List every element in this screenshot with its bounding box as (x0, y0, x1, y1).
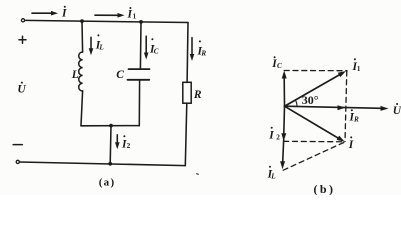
stray mark (197, 173, 199, 175)
vector IL phasor (280, 137, 285, 169)
dashed line IL to I (283, 142, 345, 170)
svg-text:C: C (116, 69, 124, 81)
wire R branch upper (186, 23, 189, 83)
svg-text:2: 2 (276, 133, 280, 141)
svg-text:I: I (348, 139, 354, 151)
svg-text:L: L (71, 69, 79, 81)
label I2 (121, 135, 131, 150)
svg-text:C: C (277, 62, 282, 70)
current arrow IC (144, 36, 149, 59)
svg-text:I: I (61, 8, 67, 20)
current arrow I2 (115, 135, 120, 150)
vector I1 phasor (285, 71, 347, 106)
svg-text:L: L (98, 44, 104, 52)
label IC (149, 38, 159, 55)
vector I2 phasor (281, 106, 286, 141)
label IR (197, 40, 207, 57)
wire C branch upper (139, 22, 142, 69)
wire L branch upper (81, 21, 84, 52)
wire top rail (25, 20, 188, 22)
current arrow IR (190, 38, 195, 61)
terminal top-left (21, 19, 24, 22)
label U phasor (393, 103, 401, 117)
junction node LC-mid (109, 124, 113, 128)
current arrow IL (89, 37, 94, 55)
angle arc 30 (295, 100, 297, 107)
dashed line I1 to I (345, 71, 347, 142)
dashed line IC to I1 (284, 70, 347, 72)
svg-text:I: I (268, 130, 274, 142)
svg-text:R: R (193, 89, 202, 101)
svg-text:30°: 30° (302, 93, 319, 107)
label IL phasor (267, 166, 277, 181)
junction node C-top (139, 20, 143, 24)
vector IR head (338, 105, 346, 110)
label I (61, 6, 67, 20)
resistor R (183, 82, 191, 103)
dashed line I2 to I (284, 140, 344, 143)
label IR phasor (349, 109, 360, 123)
polarity minus (13, 144, 22, 146)
wire R branch lower (185, 103, 187, 165)
wire LC bottom bar (81, 125, 139, 127)
label IC phasor (271, 56, 282, 70)
capacitor C (128, 69, 150, 80)
wire I2 stem (109, 126, 112, 164)
svg-text:(b): (b) (314, 182, 336, 195)
junction node L-top (80, 19, 84, 23)
wire C branch lower (138, 80, 140, 126)
svg-text:I: I (127, 9, 133, 21)
svg-text:C: C (154, 48, 159, 56)
junction node bottom (108, 162, 112, 166)
label I phasor (348, 136, 354, 151)
wire bottom rail (20, 162, 185, 166)
label U source (17, 82, 26, 96)
svg-text:(a): (a) (99, 177, 116, 189)
svg-text:R: R (200, 50, 206, 58)
svg-text:U: U (17, 84, 26, 96)
label IL (95, 34, 105, 51)
phasor diagram (b) (280, 71, 388, 171)
vector IC phasor (282, 71, 287, 107)
terminal bottom-left (16, 160, 19, 163)
current arrow I1 (95, 13, 125, 18)
axis U phasor (285, 106, 389, 111)
label I1 phasor (352, 58, 361, 73)
svg-text:2: 2 (127, 142, 131, 150)
svg-text:R: R (353, 115, 359, 123)
polarity plus (19, 36, 26, 43)
svg-text:1: 1 (357, 65, 361, 73)
svg-text:L: L (270, 173, 276, 181)
inductor L (79, 52, 83, 91)
vector I phasor (285, 106, 345, 142)
wire L branch lower (81, 91, 83, 126)
label I1 (127, 7, 137, 21)
svg-text:1: 1 (133, 12, 137, 20)
current arrow I (32, 11, 58, 16)
label I2 phasor (268, 127, 280, 142)
svg-text:U: U (393, 105, 401, 117)
